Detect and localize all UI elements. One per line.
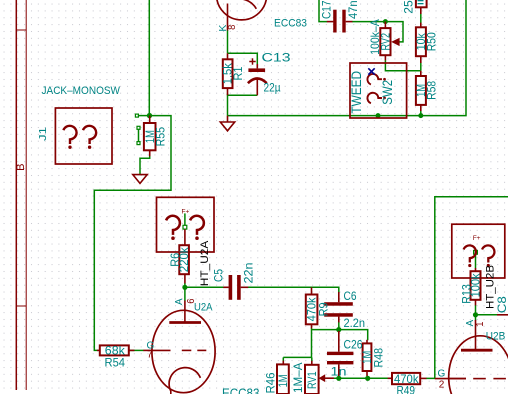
svg-text:JACK–MONOSW: JACK–MONOSW [42,85,121,97]
svg-text:C5: C5 [211,269,225,282]
svg-text:7: 7 [147,350,153,361]
svg-text:G: G [438,369,446,380]
svg-text:R49: R49 [397,384,416,394]
svg-text:F+: F+ [182,209,190,216]
svg-text:1n: 1n [331,364,347,378]
svg-text:J1: J1 [38,126,49,141]
svg-text:C6: C6 [344,289,357,303]
svg-text:R58: R58 [425,81,439,100]
svg-text:R50: R50 [425,32,439,51]
svg-text:HT_U2A: HT_U2A [199,240,211,286]
svg-text:C26: C26 [344,338,363,352]
svg-text:6: 6 [186,299,197,304]
svg-text:B: B [15,164,27,171]
svg-text:47n: 47n [346,1,360,20]
svg-text:22µ: 22µ [264,81,281,95]
svg-text:R54: R54 [105,355,126,369]
svg-text:25: 25 [402,0,416,14]
svg-text:C8: C8 [495,296,508,313]
svg-text:1: 1 [475,322,486,327]
svg-text:1M–A: 1M–A [291,363,305,394]
svg-text:R55: R55 [154,127,168,147]
svg-text:C17: C17 [320,0,334,19]
svg-text:ECC83: ECC83 [274,17,307,29]
svg-text:RV2: RV2 [379,33,393,51]
svg-text:2.2n: 2.2n [344,316,366,330]
svg-text:R48: R48 [371,348,385,368]
svg-text:F+: F+ [473,235,481,242]
svg-text:R9: R9 [317,302,331,316]
svg-text:100k: 100k [469,272,483,297]
svg-text:HT_U2B: HT_U2B [485,265,497,309]
svg-text:SW2: SW2 [380,80,395,105]
svg-text:U2B: U2B [486,331,506,343]
svg-text:22n: 22n [242,263,256,284]
svg-text:C13: C13 [262,50,292,64]
svg-text:A: A [174,298,185,305]
svg-text:ECC83: ECC83 [222,386,260,394]
svg-text:1M: 1M [276,374,290,387]
svg-text:RV1: RV1 [305,371,319,389]
svg-text:2: 2 [439,380,445,391]
svg-text:220k: 220k [177,246,191,272]
svg-text:TWEED: TWEED [349,71,364,114]
svg-text:8: 8 [227,25,238,30]
svg-text:R1: R1 [231,66,245,80]
